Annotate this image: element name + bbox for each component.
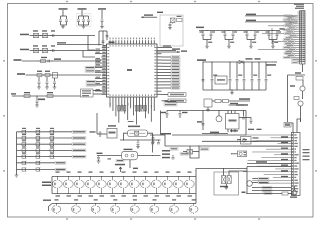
net label OSC2 (20, 49, 29, 51)
wire crystal right (148, 133, 153, 140)
matrix row 1 wire (17, 131, 73, 133)
matrix row 2 label (72, 137, 86, 140)
filter cap pair at x207 (206, 30, 207, 31)
labels caps power (213, 75, 217, 76)
filter cap pair at x251 (250, 30, 251, 31)
chain1 bottom rail (52, 193, 196, 195)
chain2 left end drop (49, 204, 53, 212)
vertical bus x160 (160, 111, 162, 136)
matrix row 5 diode at x53 (50, 155, 53, 158)
filter OSC1 box B (43, 33, 48, 37)
matrix row 1 diode at x25 (22, 130, 25, 133)
wires regulator connections (202, 80, 204, 82)
net stub VCC arrow (141, 16, 157, 18)
filter value label at x251 (252, 42, 256, 43)
ground stair (151, 141, 155, 143)
chain2 cell C40 (56, 204, 58, 206)
resistor R12 (294, 97, 299, 100)
wire audio rail (203, 110, 246, 112)
wire CN1 long net B (245, 21, 298, 23)
net label pair boxes B (86, 80, 96, 83)
labels above CN2 wires (248, 129, 254, 130)
wire stair 1 (150, 135, 165, 146)
chain1 cell L11 (167, 177, 169, 181)
wire link to CN2 mid (165, 145, 291, 147)
cap C10 to ground (54, 78, 56, 81)
wire lower supply (212, 100, 215, 102)
matrix row 3 label (72, 143, 86, 146)
label box RXD mid (54, 58, 61, 60)
connector CN1 pins (298, 11, 300, 13)
label resonator left (97, 153, 103, 154)
chain1 cell L12 (178, 177, 180, 181)
chain2 cell C41 (75, 204, 77, 206)
wire crystal left (124, 133, 128, 140)
resistor R4 (24, 95, 30, 98)
IC U1 bottom pins (109, 97, 111, 102)
crystal Y1 label (128, 126, 140, 128)
box around C3-C5 (77, 14, 92, 27)
chain1 top rail (52, 176, 196, 178)
label boxes CN2 nets (281, 136, 288, 137)
matrix row 5 label (72, 155, 86, 158)
wire resonator bottom (129, 160, 131, 168)
wires CN1 nets with boxed labels (292, 15, 298, 17)
matrix row 7 label (55, 168, 66, 171)
chain1 cell L3 (79, 177, 81, 181)
resistor R20 (282, 192, 288, 195)
matrix row 6 label (55, 161, 66, 164)
cap C8 to ground (38, 77, 40, 81)
tick labels right of C33 (108, 158, 112, 159)
IC U1 left pins (102, 47, 107, 49)
cap C26 audio right (239, 117, 251, 119)
chain1 cell L5 (101, 177, 103, 181)
matrix row 3 diode at x53 (50, 143, 53, 146)
label left of U4 wire (90, 131, 96, 132)
border tick labels top (66, 1, 68, 2)
relay box K1 outline (214, 172, 239, 195)
chain1 cell L9 (145, 177, 147, 181)
wire xtal bus (120, 139, 157, 141)
wires label pair A to U1 (95, 67, 102, 69)
chain2 rail (52, 203, 196, 205)
ground filter at x229 (227, 45, 231, 47)
cap OSC1 (52, 34, 54, 37)
wire RXD to U1 riser (94, 60, 96, 62)
transistor Q3 (246, 167, 248, 194)
wire CN2 to Q2 (300, 121, 302, 123)
label Q4 (290, 197, 297, 198)
matrix row 7 diode at x25 (22, 168, 25, 171)
matrix row 6 wire (17, 162, 56, 164)
resistor R1 (41, 60, 46, 63)
IC U1 inner pin numbers right (154, 47, 156, 48)
wire VIN left drop (202, 62, 204, 90)
wire stair 1b (189, 146, 191, 152)
filter mid bar at x273 (269, 39, 277, 41)
resistor R3 (45, 74, 50, 77)
filter cap pair at x229 (228, 30, 229, 31)
inductor L2 box (204, 99, 212, 107)
label K1 (220, 186, 228, 187)
label R11 (290, 85, 295, 86)
wire OSC1 row (30, 35, 96, 37)
wires U1 bottom nets (109, 102, 111, 107)
transistor Q5 box (53, 73, 58, 79)
resonator X2 (122, 151, 138, 160)
decoupling bank C1 C2 label (59, 8, 68, 10)
wire chain2 to right (195, 194, 197, 204)
chain2 cell C46 (173, 204, 175, 206)
labels on VIN rail (246, 58, 253, 59)
IC U3 bottom pins (227, 129, 229, 132)
wires CN2 nets left (245, 134, 291, 136)
resistor in shield box (177, 18, 183, 21)
label TO PANEL (239, 98, 250, 100)
filter OSC1 box A (34, 33, 39, 37)
matrix row 4 diode at x53 (50, 149, 53, 152)
cap C32 xtal right (152, 140, 154, 142)
connector CN2 body (291, 133, 300, 196)
cap C6 label (98, 8, 106, 10)
matrix row 4 label (72, 149, 86, 152)
matrix row 4 diode at x39 (36, 149, 39, 152)
buzzer LS1 (216, 116, 222, 122)
wire U1 right net B with arrow (162, 50, 177, 52)
wire chain1 to right (196, 169, 247, 177)
matrix row 3 diode at x25 (22, 143, 25, 146)
chain2 cell C45 (154, 204, 156, 206)
label box VREF (38, 99, 45, 101)
wire CN1 long net A (245, 15, 298, 17)
net arrow bottom (242, 192, 246, 194)
chain2 cell C44 (134, 204, 136, 206)
arrow label mid (161, 133, 171, 135)
transistor Q2 (298, 101, 303, 106)
cap C11 to ground (36, 96, 38, 100)
ground filter at x207 (205, 45, 209, 47)
ground under C8 (37, 86, 41, 88)
wire stair 2 (190, 146, 199, 158)
labels under chain1 (56, 195, 61, 196)
label R1 (41, 57, 47, 58)
wire left bus from Q stage (287, 75, 289, 122)
ground under C6 (100, 26, 104, 28)
IC U1 body (107, 44, 158, 97)
cap C14 in shield box (172, 23, 174, 24)
label T_on (109, 42, 115, 44)
connector CN2 net names inside (294, 134, 296, 135)
wires label pair B to U1 (96, 81, 102, 83)
decoupling bank C3-C5 (81, 10, 83, 16)
matrix row 1 label (72, 130, 86, 133)
ground K1 (225, 184, 227, 188)
connector CN1 title text (294, 4, 304, 5)
matrix row 2 diode at x39 (36, 136, 39, 139)
CN1 net name texts inside (302, 11, 304, 12)
net label OSC1 (20, 34, 29, 36)
label box audio left (197, 121, 202, 122)
net label VIN (197, 59, 206, 61)
matrix row 7 diode at x39 (36, 168, 39, 171)
resonator X2 label (124, 149, 133, 150)
cap C35 stair (152, 135, 154, 137)
wire riser join top (99, 30, 107, 32)
decoupling bank C3-C5 label (78, 8, 87, 10)
cap C31 xtal (137, 140, 139, 142)
cap C20 (202, 61, 203, 62)
resistor R5 (47, 95, 53, 98)
wires U1 right nets with labels (162, 56, 172, 58)
filter mid bar at x251 (247, 39, 255, 41)
wires lower nets to CN2 (252, 187, 291, 189)
label rows left of stair (162, 150, 170, 152)
wires U1 left nets (95, 50, 102, 52)
label audio top right (236, 104, 248, 105)
wires above CN2 (291, 123, 293, 133)
connector CN2 pin numbers (292, 134, 293, 136)
ground xtal (136, 146, 140, 148)
wires CN1 longer nets (268, 25, 284, 27)
matrix row 2 diode at x25 (22, 136, 25, 139)
filter mid bar at x229 (225, 39, 233, 41)
label box pair bottom-right of U1 (164, 100, 177, 103)
cap C33 (98, 156, 100, 157)
wire link to CN2 upper (202, 140, 291, 142)
cap C24 audio (243, 111, 245, 117)
matrix row 2 wire (17, 137, 73, 139)
connector CN1 pin numbers (300, 11, 301, 13)
chain1 cell L4 (90, 177, 92, 181)
caps on power rails (211, 62, 213, 79)
wires K1 to top (223, 169, 225, 176)
matrix row 6 diode at x25 (22, 161, 25, 164)
filter OSC2 box B (43, 48, 48, 52)
filter value label at x207 (208, 42, 212, 43)
cap C6 (101, 10, 103, 19)
wire resonator row (97, 155, 122, 157)
border tick labels left (3, 60, 5, 62)
power arrow VREF (12, 95, 16, 97)
crystal X3 (187, 150, 193, 155)
sub-block box U5 (81, 89, 94, 97)
transistor Q1 (300, 86, 305, 91)
ground in shield box (168, 27, 172, 29)
wire riser bus left of U1 top (98, 31, 100, 46)
wire audio rail left (167, 110, 203, 112)
border tick labels right (315, 60, 317, 62)
label right of VCC rail (280, 28, 285, 29)
crystal Y1 canned (128, 130, 148, 137)
boxes above CN2 (284, 123, 291, 128)
wire audio left drop (202, 111, 204, 131)
labels on CN2 upper wire (237, 139, 241, 140)
wire OSC2 row (30, 50, 96, 52)
IC U1 inner pin numbers top (109, 45, 112, 47)
wires U5 to U1 (93, 90, 102, 92)
chain2 cell C42 (95, 204, 97, 206)
label above OSC2 (33, 45, 38, 46)
arrow VOUT (272, 61, 277, 63)
IC U1 right pins (157, 47, 162, 49)
regulator U2 (215, 76, 227, 84)
bus bracket left of CN1 (271, 28, 273, 44)
arrow stub to J2 (232, 153, 238, 155)
wire bus below U1 joining (128, 121, 134, 123)
cap C30 (99, 130, 101, 133)
wire VREF row (16, 95, 81, 97)
filter OSC2 box A (34, 48, 39, 52)
ground filter at x251 (249, 45, 253, 47)
ground under C10 (53, 86, 57, 88)
matrix bus vertical (16, 132, 18, 170)
chain1 cell L8 (134, 177, 136, 181)
label box resonator row (116, 159, 124, 162)
filter mid bar at x207 (203, 39, 211, 41)
net label pair boxes A (85, 66, 95, 69)
label box X3 (200, 148, 209, 151)
IC U1 inner pin numbers bottom (109, 94, 112, 96)
caps right of crystal bus (157, 139, 161, 141)
diode D1 (239, 60, 243, 63)
chain1 left end (51, 177, 53, 194)
border tick labels bottom (66, 218, 68, 219)
IC U1 inner pin numbers left (107, 47, 109, 48)
shield box outline (160, 15, 183, 46)
filter value label at x273 (274, 42, 278, 43)
chain1 cell L13 (189, 177, 191, 181)
ground under C9 (45, 86, 49, 88)
resistor array RN1 (162, 94, 169, 96)
filter value label at x229 (230, 42, 234, 43)
label box stair (170, 148, 178, 151)
chain1 cell L1 (57, 177, 59, 181)
cap C7 (47, 60, 49, 63)
ground matrix bus (16, 170, 18, 176)
ground under C3-C5 (82, 26, 86, 28)
matrix row 5 diode at x39 (36, 155, 39, 158)
labels below U1 pins (110, 103, 111, 106)
ground under C11 (35, 104, 39, 106)
connector CN2 text right (303, 149, 310, 150)
ground C33 (97, 160, 101, 162)
wire VIN rail (203, 61, 272, 63)
net label VCC5 (196, 27, 204, 29)
cap C22 audio (166, 111, 168, 113)
wire mid link (172, 134, 246, 136)
label under resonator (133, 168, 138, 169)
labels VREF row (24, 92, 30, 93)
chain1 cell L2 (68, 177, 70, 181)
wire into U4 (97, 133, 107, 135)
labels audio bottom (210, 132, 219, 133)
net label TXD (17, 73, 25, 75)
matrix row 4 wire (17, 149, 73, 151)
resistor R2 (37, 74, 42, 77)
ground power supply (231, 90, 233, 93)
chain1 cell L10 (156, 177, 158, 181)
matrix row 1 diode at x39 (36, 130, 39, 133)
wire OSC1 to IC (88, 36, 95, 51)
resistor R16 (223, 100, 229, 103)
filter cap pair at x273 (272, 30, 273, 31)
cap C9 to ground (46, 77, 48, 81)
matrix row 5 wire (17, 156, 73, 158)
bottom rail power supply (203, 89, 266, 91)
wire VCC rail (199, 30, 280, 32)
cap C13 on riser (106, 35, 109, 37)
resistor packs below U1 (118, 106, 120, 112)
relay K1 coil (222, 176, 226, 184)
wire long net to U1 pin 1 (57, 44, 102, 46)
chain1 right end (195, 177, 197, 194)
wire TXD row (26, 74, 102, 76)
resistor R10 (296, 77, 303, 81)
cap C12 on riser (102, 40, 105, 42)
matrix row 3 wire (17, 143, 73, 145)
wire below CN1 (302, 64, 304, 72)
decoupling bank C1 C2 (62, 10, 64, 16)
matrix row 6 diode at x39 (36, 161, 39, 164)
IC U1 top pins (109, 40, 111, 44)
IC U4 body (107, 129, 117, 139)
chain1 cell L6 (112, 177, 114, 181)
cap OSC2 (52, 49, 54, 52)
matrix row 2 diode at x53 (50, 136, 53, 139)
wire audio bottom (202, 133, 228, 135)
resistor R15 (215, 100, 221, 103)
matrix row 3 diode at x39 (36, 143, 39, 146)
crystal Y2 in shield box (171, 18, 176, 23)
chain2 cell C47 (193, 204, 195, 206)
wire horizontal below CN1 (288, 74, 306, 76)
wire below shield box with arrow (156, 51, 180, 53)
wire net to CN2 B (247, 166, 291, 168)
wire bottom net (246, 193, 282, 195)
label boxes CN1 bottom pins (292, 59, 299, 61)
wire U1 right net A with arrow (162, 47, 173, 49)
matrix row 1 diode at x53 (50, 130, 53, 133)
wire net OSC2 to U1 (83, 51, 95, 58)
label net CN2 (256, 161, 267, 163)
cap C36 stair (172, 155, 174, 157)
transistor Q4 (292, 190, 297, 195)
IC U3 audio (226, 114, 240, 130)
ground filter at x273 (271, 45, 275, 47)
jack J2 box (238, 151, 247, 157)
wire crystal X3 row (183, 151, 187, 153)
jack J3 box (241, 137, 252, 145)
matrix row 7 wire (17, 169, 56, 171)
power arrow above chain (120, 167, 122, 172)
shield box label (157, 12, 163, 13)
label above OSC1 (33, 30, 38, 31)
junction dots on U1 left bus (101, 50, 102, 51)
matrix row 5 diode at x25 (22, 155, 25, 158)
ground under C1 C2 (61, 26, 65, 28)
resistor array RN2 (162, 100, 169, 102)
matrix row 4 diode at x25 (22, 149, 25, 152)
cap C25 audio left (202, 123, 205, 125)
wire net to CN2 A (247, 163, 291, 165)
labels TXD components (37, 71, 42, 72)
wires Q3 nets (252, 178, 258, 180)
IC U1 designator (127, 69, 132, 71)
connector CN1 body (300, 11, 305, 64)
wire audio out (245, 111, 247, 136)
net label RXD (14, 59, 22, 61)
